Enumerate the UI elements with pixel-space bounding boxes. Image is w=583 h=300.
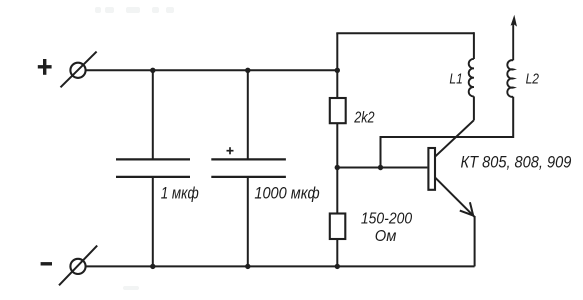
wire C2 upper lead xyxy=(247,70,249,159)
node top rail / C2 xyxy=(245,68,250,73)
node top rail / C1 xyxy=(150,68,155,73)
wire collector diagonal xyxy=(435,120,474,156)
svg-text:1000 мкф: 1000 мкф xyxy=(254,184,319,202)
antenna arrow xyxy=(511,15,517,61)
wire emitter to bottom rail xyxy=(474,216,476,266)
node base rail / main vertical xyxy=(335,165,340,170)
wire top loop horizontal xyxy=(336,32,474,34)
wire C1 upper lead xyxy=(152,70,154,159)
svg-text:КТ 805, 808, 909: КТ 805, 808, 909 xyxy=(461,152,572,171)
wire base rail xyxy=(337,167,427,169)
plus polarity label xyxy=(38,59,52,75)
node top rail / main vertical xyxy=(335,68,340,73)
node bottom rail / C1 xyxy=(150,264,155,269)
wire C2 lower lead xyxy=(247,177,249,267)
inductor L2 xyxy=(507,60,513,97)
svg-text:L1: L1 xyxy=(449,72,462,88)
svg-text:Ом: Ом xyxy=(375,228,397,245)
wire main vertical branch xyxy=(336,33,338,266)
node bottom rail / main vertical xyxy=(335,264,340,269)
resistor R2 150-200 Ом xyxy=(330,214,346,240)
terminal X2 (-) xyxy=(59,246,97,286)
resistor R1 2k2 xyxy=(330,98,346,123)
transistor Q1 base bar xyxy=(428,148,435,190)
wire L2 lower lead xyxy=(381,97,514,168)
minus polarity label xyxy=(41,262,52,265)
inductor L1 xyxy=(469,59,474,96)
terminal X1 (+) xyxy=(61,52,97,88)
wire top rail xyxy=(86,69,337,71)
capacitor C2 plates xyxy=(211,159,286,177)
C2 polarity plus mark xyxy=(227,147,234,154)
svg-text:L2: L2 xyxy=(526,72,539,88)
capacitor C1 plates xyxy=(116,159,190,177)
svg-text:1 мкф: 1 мкф xyxy=(161,184,199,202)
node base rail / feedback xyxy=(378,165,383,170)
svg-text:2k2: 2k2 xyxy=(353,110,374,127)
node bottom rail / C2 xyxy=(245,264,250,269)
svg-text:150-200: 150-200 xyxy=(361,211,412,228)
wire L1 upper lead xyxy=(473,32,475,59)
faint cropped text ghosts at top edge xyxy=(95,7,174,290)
wire L1 lower lead xyxy=(473,96,475,120)
transistor Q1 emitter with arrow xyxy=(435,178,474,217)
wire C1 lower lead xyxy=(152,177,154,267)
wire bottom rail xyxy=(86,265,474,267)
